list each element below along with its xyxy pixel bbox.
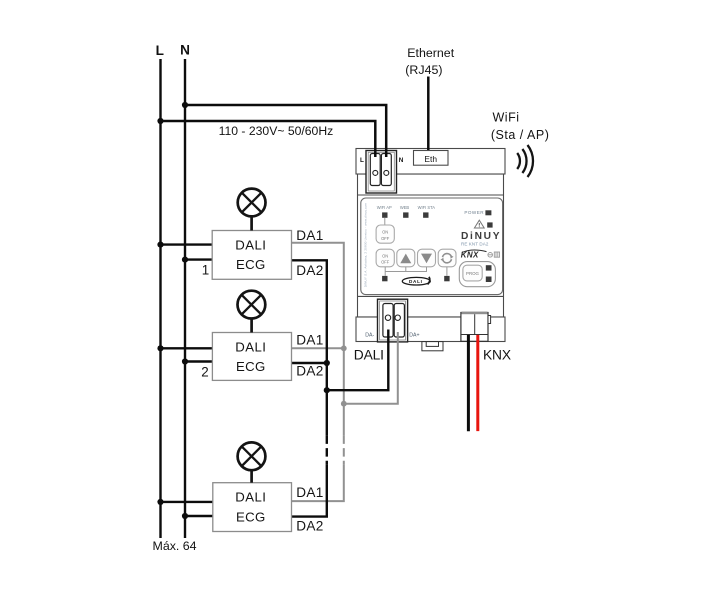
KNX bus wire red	[476, 335, 479, 431]
wire L to ECG3	[161, 501, 213, 503]
junction dot L3	[157, 499, 163, 505]
LED dali onoff	[382, 276, 387, 281]
LED wifi-sta	[423, 212, 428, 217]
lamp E3	[238, 442, 266, 482]
LED power	[485, 210, 491, 215]
ECG box 2	[212, 333, 291, 381]
KNX logo	[461, 250, 487, 260]
svg-text:RE KNT DA2: RE KNT DA2	[461, 242, 489, 247]
node N vertical wire	[184, 59, 186, 538]
svg-text:L: L	[156, 43, 164, 58]
LED wifi-ap	[382, 212, 387, 217]
svg-text:N: N	[180, 43, 190, 58]
wire L to ECG2	[161, 347, 213, 349]
svg-text:Máx. 64: Máx. 64	[153, 539, 197, 553]
terminal block DALI bottom	[378, 299, 408, 342]
button SYNC circular arrows	[438, 249, 456, 267]
junction dot N1	[182, 257, 188, 263]
wifi waves icon	[517, 145, 533, 177]
KNX connector	[461, 312, 491, 342]
svg-text:WIFI AP: WIFI AP	[377, 205, 392, 210]
svg-text:ON: ON	[382, 230, 388, 235]
svg-text:KNX: KNX	[461, 251, 479, 260]
ethernet cable wire	[427, 77, 430, 151]
svg-text:ECG: ECG	[236, 509, 265, 524]
svg-text:OFF: OFF	[381, 236, 390, 241]
svg-text:ON: ON	[382, 253, 388, 258]
junction dot black DA-	[324, 387, 330, 393]
svg-text:DA2: DA2	[296, 364, 323, 379]
lamp E1	[238, 189, 266, 231]
svg-text:ECG: ECG	[236, 257, 265, 272]
svg-text:DALI: DALI	[409, 279, 423, 284]
wire N to ECG3	[185, 515, 213, 517]
junction dot L	[157, 118, 163, 124]
LED prog 2	[486, 277, 492, 283]
device U1 housing (DINUY RE KNT DA2 gateway)	[356, 149, 505, 342]
wire N to ECG1	[185, 258, 212, 260]
svg-text:DA1: DA1	[296, 485, 323, 500]
KNX bus wire black	[467, 335, 470, 431]
wire N to ECG2	[185, 360, 212, 362]
lamp E2	[238, 291, 266, 333]
svg-text:OFF: OFF	[381, 260, 390, 265]
svg-text:DA+: DA+	[409, 332, 419, 338]
svg-text:110 - 230V~ 50/60Hz: 110 - 230V~ 50/60Hz	[219, 124, 334, 138]
Eth port	[414, 151, 449, 166]
junction dot gray DA1-2	[341, 345, 347, 351]
svg-text:Eth: Eth	[424, 154, 437, 164]
junction dot black DA2-2	[324, 360, 330, 366]
wire L to device terminal	[161, 121, 376, 157]
svg-text:2: 2	[201, 364, 208, 379]
CE-like mark	[488, 253, 493, 258]
grid mark	[494, 252, 499, 257]
ECG box 3	[213, 483, 292, 532]
svg-text:DA2: DA2	[296, 263, 323, 278]
LED prog 1	[486, 265, 492, 270]
svg-text:KNX: KNX	[483, 347, 511, 362]
svg-text:DINUY S.A. Askatina, 2 20830 U: DINUY S.A. Askatina, 2 20830 Urretxu - w…	[363, 202, 367, 287]
ECG box 1	[212, 231, 291, 280]
svg-text:DALI: DALI	[235, 490, 266, 505]
bracket under buttons	[385, 267, 447, 276]
junction dot L2	[157, 345, 163, 351]
black DALI DA- bus wire	[292, 260, 389, 516]
svg-text:POWER: POWER	[464, 210, 484, 215]
junction dot gray DA+	[341, 401, 347, 407]
button UP arrow	[397, 249, 415, 267]
LED web	[403, 212, 408, 217]
PROG zone outline	[459, 262, 495, 287]
junction dot N3	[182, 513, 188, 519]
svg-text:DA-: DA-	[365, 332, 374, 338]
junction dot N2	[182, 358, 188, 364]
svg-text:WIFI STA: WIFI STA	[418, 205, 436, 210]
svg-text:ECG: ECG	[236, 359, 265, 374]
PROG button	[463, 265, 482, 281]
svg-text:DA1: DA1	[296, 228, 323, 243]
svg-text:DiNUY: DiNUY	[461, 231, 501, 242]
svg-text:PROG: PROG	[466, 271, 480, 276]
node L vertical wire	[159, 59, 161, 538]
DALI oval logo	[402, 277, 430, 285]
svg-text:Ethernet: Ethernet	[407, 46, 454, 60]
warning triangle	[474, 220, 484, 228]
button DOWN arrow	[418, 249, 436, 267]
DIN rail clip	[422, 342, 443, 351]
svg-text:1: 1	[202, 263, 209, 278]
svg-text:DALI: DALI	[235, 339, 266, 354]
svg-text:DA1: DA1	[296, 333, 323, 348]
wire L to ECG1	[161, 243, 213, 245]
terminal block L/N top	[366, 151, 397, 194]
wire N to device terminal	[185, 105, 386, 157]
svg-text:DA2: DA2	[296, 519, 323, 534]
svg-text:WiFi: WiFi	[493, 110, 520, 124]
svg-text:L: L	[360, 157, 364, 164]
junction dot L1	[157, 242, 163, 248]
LED warning	[487, 222, 492, 227]
svg-text:(RJ45): (RJ45)	[405, 63, 442, 77]
svg-text:WEB: WEB	[400, 205, 410, 210]
connector line LED to button	[384, 218, 386, 225]
front panel of U1	[361, 198, 503, 295]
svg-text:DALI: DALI	[235, 238, 266, 253]
LED sync	[444, 276, 449, 281]
svg-text:N: N	[399, 157, 404, 164]
svg-text:(Sta / AP): (Sta / AP)	[491, 128, 550, 142]
svg-text:DALI: DALI	[354, 347, 384, 362]
button ON/OFF dali	[376, 249, 394, 267]
gray DALI DA+ bus wire	[292, 243, 398, 501]
junction dot N	[182, 102, 188, 108]
button ON/OFF wifi	[376, 225, 394, 243]
